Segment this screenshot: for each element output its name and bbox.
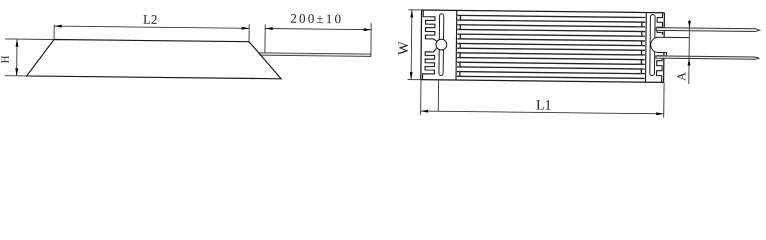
slot extension artifact line [437,80,439,111]
left flange serpentine cut [423,10,437,80]
dimension W line with arrows [410,10,414,80]
resistor body side view (trapezoid housing) [27,39,282,79]
right flange mounting slot [650,15,655,76]
resistor body top view: outline [421,10,665,82]
dimension W extension lines [408,10,422,80]
cooling fins [457,15,645,78]
dimension L1 line with arrows [421,110,664,116]
top lead wire [656,28,760,32]
dimension 200±10 extension lines [265,22,371,57]
dimension A line with arrows [687,20,691,84]
svg-text:A: A [674,72,688,81]
fin section boundaries [456,10,646,82]
svg-text:L1: L1 [536,98,552,113]
right flange serpentine cut [656,13,662,83]
dimension H line with arrows [15,39,18,76]
dimension L2 line with arrows [54,25,249,30]
svg-text:H: H [0,55,12,63]
dimension L2 extension lines [54,22,249,43]
dimension H extension lines [5,39,54,76]
lead wire (side view) [260,53,371,57]
lead attachment capsule [651,37,690,56]
svg-text:L2: L2 [143,12,158,27]
svg-text:W: W [396,41,412,55]
svg-text:200±10: 200±10 [290,11,343,27]
dimension 200±10 line with arrows [265,27,371,31]
dimension L1 extension lines [421,80,664,118]
bottom lead wire [656,56,760,59]
left flange keyhole circle [436,39,447,50]
left flange mounting slot [439,14,444,76]
